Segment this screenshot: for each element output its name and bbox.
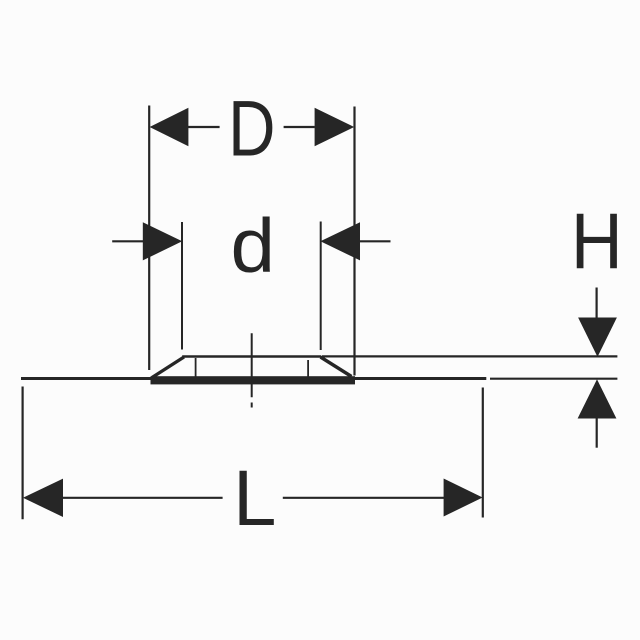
label H (571, 197, 623, 285)
mounting plane line (21, 377, 486, 380)
dimension L arrow left (23, 479, 63, 517)
washer cone left slope (152, 357, 184, 378)
dimension H leader bottom (596, 419, 598, 448)
dimension D leader right (284, 126, 315, 128)
dimension H extension line bottom (490, 378, 617, 380)
dimension d extension line right (320, 222, 322, 351)
dimension D arrow left (150, 108, 189, 146)
dimension L leader left (62, 497, 223, 499)
washer cone right slope (321, 357, 352, 377)
dimension H arrow down (578, 318, 617, 357)
dimension H arrow up (578, 379, 617, 418)
label d (231, 202, 276, 288)
dimension d leader left (112, 240, 143, 242)
washer base plate (thick section) (151, 376, 356, 384)
dimension H leader top (595, 288, 597, 319)
label L (233, 454, 276, 543)
dimension D extension line right (353, 107, 355, 376)
svg-text:L: L (233, 454, 276, 543)
label D (228, 85, 275, 173)
svg-text:D: D (228, 85, 275, 173)
dimension L extension line right (482, 388, 484, 518)
dimension H extension line top (322, 355, 617, 357)
dimension d extension line left (181, 222, 183, 350)
washer hole edge right (307, 360, 309, 378)
center line (251, 333, 253, 397)
dimension L extension line left (22, 387, 24, 520)
svg-text:d: d (231, 202, 276, 288)
washer hole edge left (195, 358, 197, 377)
dimension D extension line left (148, 106, 150, 371)
dimension D arrow right (315, 108, 355, 146)
dimension L arrow right (444, 479, 483, 517)
dimension D leader left (187, 126, 220, 128)
svg-text:H: H (571, 197, 623, 285)
dimension d leader right (360, 240, 391, 242)
dimension d arrow right (320, 222, 360, 260)
washer cone top edge (182, 355, 321, 357)
dimension L leader right (283, 497, 445, 499)
center line dash (251, 403, 253, 408)
dimension d arrow left (143, 222, 182, 260)
